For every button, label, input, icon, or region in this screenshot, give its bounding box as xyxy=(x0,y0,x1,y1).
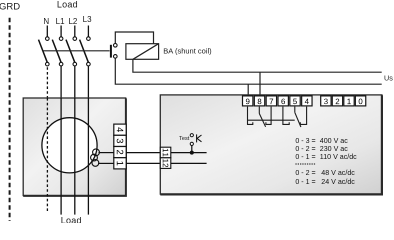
terminal 4 (main box) xyxy=(302,96,312,106)
terminal 2 (relay box) xyxy=(114,147,126,158)
voltage selector links under terminals 9-4 xyxy=(248,107,307,127)
svg-text:0 - 1 =: 0 - 1 = xyxy=(295,178,315,186)
wire terminal 1 to terminal 12 xyxy=(126,162,161,164)
switch pole N xyxy=(39,26,50,66)
terminal 3 (main box) xyxy=(321,96,331,106)
switch pole L2 xyxy=(66,26,77,66)
svg-text:Test: Test xyxy=(179,136,190,142)
contact fixed terminal lower xyxy=(114,55,118,59)
svg-text:GRD: GRD xyxy=(0,2,20,13)
test pushbutton actuator xyxy=(197,134,202,142)
terminal 11 (main box) xyxy=(160,147,171,158)
wire branch from upper rail to terminal 8 xyxy=(259,72,261,97)
terminal 6 xyxy=(278,96,288,106)
svg-text:Us: Us xyxy=(384,74,393,83)
wire L1 through box xyxy=(60,98,62,215)
wire from coil bottom to Us upper rail xyxy=(133,59,382,72)
wire branch from lower rail to terminal 9 xyxy=(247,84,249,97)
svg-text:48 V ac/dc: 48 V ac/dc xyxy=(321,169,355,177)
terminal 12 (main box) xyxy=(160,158,171,169)
svg-text:24 V ac/dc: 24 V ac/dc xyxy=(321,178,355,186)
switch pole L1 xyxy=(52,26,63,66)
coil BA box xyxy=(126,44,159,60)
wire N below switch (dashed) xyxy=(46,67,48,98)
wire L1 xyxy=(60,66,62,98)
terminal 8 xyxy=(254,96,264,106)
svg-text:400 V ac: 400 V ac xyxy=(320,137,348,145)
terminal 2 (main box) xyxy=(332,96,342,106)
svg-text:0 - 2 =: 0 - 2 = xyxy=(295,169,315,177)
terminal 9 xyxy=(243,96,253,106)
terminal 1 (main box) xyxy=(344,96,354,106)
svg-text:230 V ac: 230 V ac xyxy=(320,145,348,153)
wire stub under 7 with strap end xyxy=(266,107,271,125)
svg-text:0 - 2 =: 0 - 2 = xyxy=(295,145,315,153)
terminal 4 (relay box) xyxy=(114,124,126,135)
wire CT secondary to terminal 2 xyxy=(99,152,114,154)
transformer CT secondary winding xyxy=(91,149,100,166)
wire test branch xyxy=(191,146,193,153)
separator dashes xyxy=(295,163,315,165)
terminal 3 (relay box) xyxy=(114,135,126,146)
wire stub under 4 with strap end xyxy=(300,107,306,125)
wire tap to shunt coil contact xyxy=(44,50,110,52)
test contact upper terminal xyxy=(190,134,193,137)
terminal 7 xyxy=(266,96,276,106)
svg-text:N: N xyxy=(43,17,49,26)
wire terminal 2 to terminal 11 xyxy=(126,152,161,154)
contact actuator bar of BA xyxy=(110,45,112,58)
wire L2 through box xyxy=(74,98,76,215)
switch pole L3 xyxy=(80,26,91,66)
terminal 1 (relay box) xyxy=(114,158,126,169)
wire loop from upper contact to coil top xyxy=(115,32,153,44)
wire from terminal 12 into box xyxy=(171,162,207,164)
svg-text:BA (shunt coil): BA (shunt coil) xyxy=(163,47,212,56)
coil BA diagonal xyxy=(133,44,159,60)
wire from lower contact to Us lower rail xyxy=(115,58,381,84)
wire stub under 6 with strap end xyxy=(283,107,289,125)
junction dot on test branch xyxy=(190,151,194,155)
wire N through box and CT (dashed) xyxy=(46,98,48,213)
terminal 5 xyxy=(290,96,300,106)
main box shadow edges xyxy=(160,95,382,194)
terminal 0 (main box) xyxy=(355,96,365,106)
wire L3 xyxy=(87,66,89,98)
relay box (left, current transformer unit) xyxy=(23,98,126,196)
relay box shadow edges xyxy=(23,98,126,195)
main box (right, protection relay) xyxy=(160,95,382,194)
contact fixed terminal upper xyxy=(114,44,118,48)
svg-text:0 - 1 =: 0 - 1 = xyxy=(295,153,315,161)
svg-text:L3: L3 xyxy=(83,15,92,24)
wire from terminal 11 into box xyxy=(171,152,207,154)
wire CT secondary to terminal 1 xyxy=(98,162,114,164)
wire GRD (dashed ground conductor) xyxy=(9,18,11,221)
wire L3 through box xyxy=(87,98,89,215)
switch blade under 5 xyxy=(294,107,296,113)
svg-text:L1: L1 xyxy=(56,17,65,26)
wire rail under terminals xyxy=(248,119,295,121)
svg-text:0 - 3 =: 0 - 3 = xyxy=(295,137,315,145)
svg-text:L2: L2 xyxy=(68,17,77,26)
svg-text:Load: Load xyxy=(61,215,82,223)
svg-text:Load: Load xyxy=(57,0,78,10)
test contact lower terminal xyxy=(190,142,193,145)
transformer CT toroid xyxy=(42,118,97,173)
svg-text:110 V ac/dc: 110 V ac/dc xyxy=(320,153,357,161)
wire stub under 9 with strap end xyxy=(248,107,253,125)
switch blade under 8 xyxy=(258,107,260,114)
wire L2 xyxy=(74,66,76,98)
